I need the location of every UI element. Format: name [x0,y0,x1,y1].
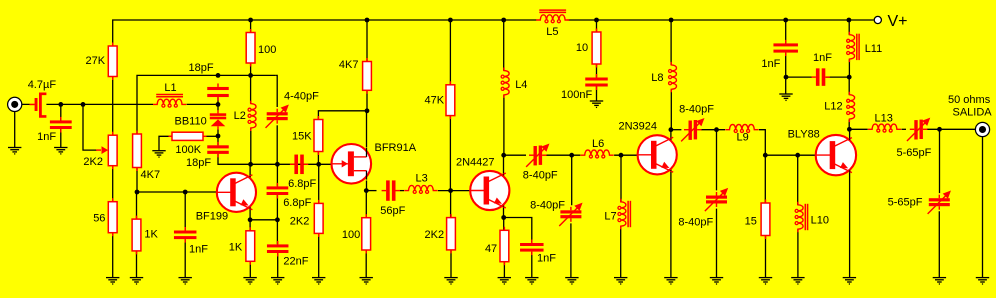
node 15 ohm [763,153,768,158]
resistor 15 [765,200,766,204]
resistor 15K [318,116,319,120]
wire L8 bottom [670,90,672,130]
resistor 4K7 (BFR91A collector) [366,58,367,62]
resistor 100 (BFR91A emitter) [366,214,367,218]
node 100ohm / L2 top [248,73,253,78]
node emitter caps [275,217,280,222]
node emitter 100/56pF [364,188,369,193]
inductor L5 [536,15,569,20]
node rail L4 [501,18,506,23]
capacitor 1nF (base bypass) [174,227,197,243]
wire collector to L13 [849,128,867,130]
svg-text:BB110: BB110 [175,115,207,127]
svg-text:8-40pF: 8-40pF [530,199,565,211]
svg-text:1nF: 1nF [37,131,56,143]
node 15K/2K2/base [316,162,321,167]
node wiper tap on input line [81,102,86,107]
svg-text:8-40pF: 8-40pF [679,104,714,116]
ground 56 [106,278,119,284]
node L3/2K2/2N4427 base [448,188,453,193]
svg-text:1nF: 1nF [537,252,556,264]
resistor 100K [169,136,173,137]
resistor 1K (emitter) [250,227,251,231]
node 8-40pF/L6/shunt [569,153,574,158]
capacitor 4.7uF (electrolytic) [30,93,47,118]
ground 1K base [130,278,143,284]
capacitor 1nF (input shunt) [50,117,72,133]
capacitor 18pF (top) [207,83,229,100]
wire 56 to ground [112,233,114,278]
capacitor 100nF [585,74,608,90]
ground 15 [759,278,772,284]
node rail 47K [448,18,453,23]
svg-text:4K7: 4K7 [339,59,359,71]
trimmer wiper arrow [96,146,108,154]
node on input line (1nF tap) [58,102,63,107]
wire 1nF to ground [184,192,186,278]
node 18pF top [216,73,221,78]
wire 8-40pF to L6 [546,154,580,156]
svg-text:L11: L11 [865,43,883,55]
variable capacitor 8-40pF (series 2) [684,120,702,140]
inductor L4 [503,20,505,71]
capacitor 1nF (supply) [773,40,798,56]
svg-text:SALIDA: SALIDA [953,107,993,119]
wire varcap to L9 node [701,129,725,131]
wire input line [22,103,153,105]
ground 2N3924 emitter [664,278,677,284]
wire output shunt cap [938,129,940,277]
wire 4-40pF bottom [276,125,278,164]
wire 100nF to ground [596,87,598,102]
wire 2N3924 emitter to ground [670,168,672,277]
node BB110/100K/18pF [216,134,221,139]
node collector/L8/8-40pF2 [669,127,674,132]
svg-text:5-65pF: 5-65pF [897,147,932,159]
node 4K7/15K/collector [365,108,370,113]
node L10 [795,153,800,158]
svg-text:100K: 100K [175,144,201,156]
inductor L12 [848,120,850,130]
wire collector drop [366,111,368,148]
ground 100 emitter [360,278,373,284]
wire emitter to 56pF [366,190,376,192]
wire 2N4427 emitter [503,204,505,217]
wire shunt varcap [570,155,573,277]
svg-text:4K7: 4K7 [141,169,161,181]
capacitor 22nF (emitter bypass) [267,241,289,257]
wire 100K left to ground [159,136,172,150]
svg-text:15: 15 [745,216,757,228]
wire emitter to 1nF [504,218,532,243]
wire L9 to BLY88 base [759,130,816,156]
svg-text:2N4427: 2N4427 [456,157,495,169]
wire 15K bottom [317,152,319,165]
ground 1nF supply [779,94,792,100]
capacitor 1nF (2N4427 bypass) [520,240,544,256]
svg-text:2N3924: 2N3924 [619,121,658,133]
wire 2K2 bias [318,164,320,277]
resistor 2K2 (BFR91A emitter bias) [318,200,319,204]
wire 1K emitter to ground [249,220,251,278]
wire 18pF to oscillator line [218,154,332,165]
svg-text:1nF: 1nF [189,243,208,255]
ground 1nF base [179,278,192,284]
node L11/L12/1nF [847,75,852,80]
resistor 2K2 (2N4427 base) [450,214,451,218]
wire L1 to varicap node [187,97,218,104]
svg-text:22nF: 22nF [283,255,308,267]
node base/1K [135,190,140,195]
wire L4 bottom [503,95,505,155]
wire L10 to ground [797,229,799,277]
wire feedback line [137,75,276,134]
node rail L8 [669,18,674,23]
ground 22nF [271,278,284,284]
wire 22nF to ground [276,220,278,278]
output connector (50 ohms SALIDA) [975,122,989,136]
svg-text:BF199: BF199 [196,211,228,223]
wire L11 bottom [848,59,850,77]
wire 47K top to rail [449,20,451,85]
wire 100 emitter [365,191,367,278]
wire 100 bottom [250,63,252,75]
resistor 1K (base) [136,216,137,220]
wire BF199 emitter [250,207,277,220]
svg-text:L7: L7 [604,211,616,223]
svg-text:L13: L13 [875,113,893,125]
wire shunt varcap 2 [716,130,718,278]
capacitor 1nF (series) [811,68,829,86]
inductor L7 (cored) [620,155,622,202]
variable capacitor 8-40pF (shunt) [560,207,581,222]
wire 15 to ground [764,155,766,277]
svg-text:4.7µF: 4.7µF [28,79,57,91]
inductor L11 (cored) [848,20,850,35]
wire 4K7 to base node [136,168,138,193]
svg-text:6.8pF: 6.8pF [288,178,316,190]
terminal V+ [874,16,881,23]
transistor BLY88 [816,135,856,175]
ground 100nF [590,101,603,107]
svg-text:27K: 27K [86,55,106,67]
wire 1nF supply [785,20,787,94]
resistor 4K7 (BF199 base bias) [136,131,137,135]
inductor L8 [670,20,672,65]
variable capacitor 8-40pF (shunt 2) [706,192,727,207]
svg-text:L9: L9 [737,132,749,144]
ground 47 [498,278,511,284]
svg-text:L2: L2 [234,110,246,122]
wire 100 top to rail [250,20,252,33]
wire trimmer to 56 [112,166,114,202]
svg-text:2K2: 2K2 [425,229,445,241]
ground 1K emitter [243,278,256,284]
node output/shunt cap [937,127,942,132]
wire collector to 8-40pF [504,154,526,156]
svg-text:6.8pF: 6.8pF [283,197,311,209]
svg-text:100: 100 [258,44,276,56]
resistor 10 [596,29,597,33]
wire 1nF series link [786,76,850,78]
wire 4-40pF drop [276,75,277,107]
node 4-40pF / feedback caps [275,162,280,167]
ground L10 [791,278,804,284]
resistor 56 [112,198,113,202]
wire 1nF bypass to ground [531,252,533,278]
ground 1nF input [54,148,67,154]
wire 5-65pF to output [927,128,976,130]
inductor L13 [868,124,901,129]
svg-text:47: 47 [485,243,497,255]
resistor 47K [450,81,451,85]
svg-text:10: 10 [576,42,588,54]
ground 8-40pF shunt1 [565,278,578,284]
wire 4K7 bottom to collector node [366,90,368,111]
svg-text:L3: L3 [416,173,428,185]
wire 2N3924 collector [670,130,672,142]
resistor 47 [504,227,505,231]
capacitor 6.8pF (feedback upper) [267,183,289,199]
wire feedback caps [276,164,278,220]
wire 27K to trimmer (crosses input line) [112,77,114,136]
wire 1K to ground [136,192,138,278]
inductor L2 [250,75,252,103]
variable capacitor 5-65pF (series) [910,120,928,140]
inductor L3 [404,185,437,190]
ground 5-65pF shunt [933,278,946,284]
svg-text:100: 100 [342,229,360,241]
node rail 1nF [783,18,788,23]
wire 100K right lead [207,135,219,137]
wire L13 to 5-65pF [902,128,907,130]
variable capacitor 8-40pF (series) [529,146,547,166]
wire BLY88 collector [849,129,851,141]
svg-text:1K: 1K [144,229,158,241]
transistor BF199 [217,173,256,212]
node rail 10 [594,18,599,23]
ground 8-40pF shunt2 [710,278,723,284]
ground 1nF bypass [525,278,538,284]
wire 56pF to L3 [400,190,404,192]
ground input connector [8,148,21,154]
node emitter/1K [248,217,253,222]
node rail 100 [248,18,253,23]
svg-text:2K2: 2K2 [290,216,310,228]
svg-text:1nF: 1nF [761,58,780,70]
wire 2N4427 collector [503,155,505,177]
svg-text:56: 56 [93,213,105,225]
wire collector line to varcap [671,129,682,131]
ground 2K2 bias [312,278,325,284]
capacitor 56pF [382,180,400,200]
node collector/L12/L13 [847,127,852,132]
node L6/L7/2N3924 base [619,153,624,158]
node emitter 47/1nF [501,215,506,220]
svg-text:L1: L1 [164,82,176,94]
wire wiper tap to trimmer 2K2 [83,104,97,150]
wire BFR91A emitter drop [366,181,368,191]
wire L6 to base node [614,154,638,156]
svg-text:L6: L6 [592,138,604,150]
node rail L11 [847,18,852,23]
svg-text:BFR91A: BFR91A [375,142,417,154]
transistor 2N4427 [470,171,509,210]
svg-text:V+: V+ [888,13,908,30]
inductor L6 [579,154,581,156]
ground L7 [614,278,627,284]
transistor BFR91A [332,144,372,184]
node varcap/L9/shunt2 [714,127,719,132]
wire 15K top corner [318,111,367,120]
svg-text:18pF: 18pF [189,62,214,74]
inductor L10 (cored) [797,155,799,205]
svg-text:4-40pF: 4-40pF [284,91,319,103]
resistor 100 (feed) [250,29,251,33]
wire BF199 collector [249,164,251,177]
node 1nF ground tap [784,75,789,80]
ground 100K [152,151,165,157]
variable capacitor 4-40pF [267,109,288,124]
resistor 27K [112,43,113,47]
svg-text:2K2: 2K2 [83,156,103,168]
wire L3 to node [438,190,470,192]
node L1/18pF/BB110 [216,102,221,107]
svg-text:1nF: 1nF [813,52,832,64]
node collector/L4/8-40pF [501,153,506,158]
svg-text:BLY88: BLY88 [788,129,820,141]
input connector J1 [8,97,22,111]
trimmer 2K2 [112,132,113,136]
svg-text:47K: 47K [425,94,445,106]
inductor L9 [725,125,758,130]
svg-text:L8: L8 [651,72,663,84]
ground output connector [976,278,989,284]
wire top supply rail (V+) [113,20,537,46]
wire BB110 anode to node [217,104,219,145]
capacitor 6.8pF (series) [290,155,308,175]
svg-text:L5: L5 [546,26,558,38]
wire BF199 base line [137,191,217,193]
svg-text:L10: L10 [811,215,829,227]
wire L7 to ground [620,226,622,277]
wire L12 top [848,77,850,95]
wire output connector to ground [982,137,984,278]
wire top supply rail right of L5 [568,19,874,21]
ground 2K2 base2 [444,278,457,284]
wire 47K bottom to base node [449,116,451,191]
wire 4K7 top to rail [366,20,368,62]
svg-text:18pF: 18pF [186,157,211,169]
wire 10 to 100nF [596,20,598,77]
capacitor 18pF (bottom) [207,142,229,158]
svg-text:100nF: 100nF [561,89,592,101]
svg-text:5-65pF: 5-65pF [888,197,923,209]
svg-text:15K: 15K [292,130,312,142]
svg-text:L12: L12 [824,100,842,112]
svg-text:50 ohms: 50 ohms [948,94,991,106]
node L2 / BF199 collector [248,162,253,167]
svg-text:L4: L4 [515,79,527,91]
wire 47 to ground [503,218,506,278]
node base/1nF [183,190,188,195]
wire 1nF shunt [60,104,62,147]
ground BLY88 emitter [843,278,856,284]
variable capacitor 5-65pF (shunt) [929,195,950,210]
transistor 2N3924 [638,135,677,174]
node rail 4K7 [365,18,370,23]
svg-text:1K: 1K [229,242,243,254]
inductor L1 [153,99,186,104]
wire 2K2 base2 [450,191,452,278]
svg-text:8-40pF: 8-40pF [523,170,558,182]
varicap diode BB110 [210,110,226,130]
svg-text:8-40pF: 8-40pF [678,216,713,228]
wire L2 bottom [250,128,252,164]
wire BLY88 emitter to ground [849,169,851,278]
svg-text:56pF: 56pF [380,205,405,217]
wire input connector to ground [14,111,16,147]
